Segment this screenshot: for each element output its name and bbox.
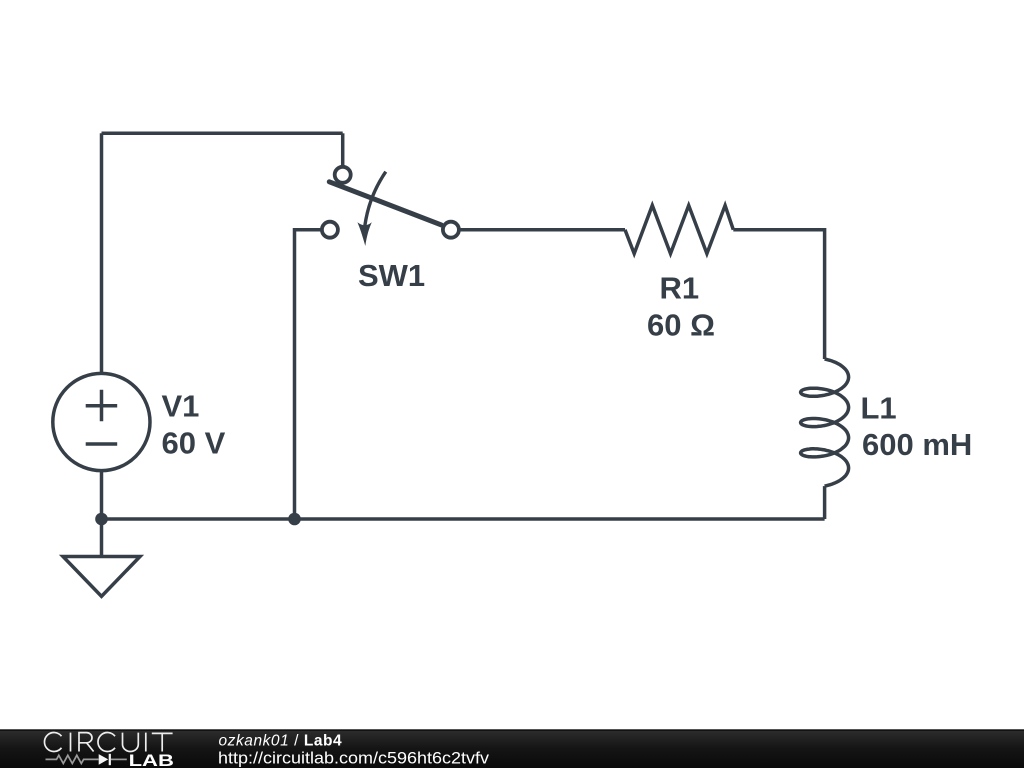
junction node at switch branch — [288, 513, 301, 526]
logo resistor wire — [46, 755, 127, 763]
svg-text:600 mH: 600 mH — [862, 427, 972, 462]
svg-text:LAB: LAB — [129, 751, 174, 768]
junction node at V1 — [95, 513, 108, 526]
footer bar — [0, 729, 1024, 768]
switch SW1 throw 2 terminal — [322, 222, 338, 238]
switch SW1 common terminal — [443, 222, 459, 238]
inductor L1 — [801, 359, 849, 486]
svg-text:60 V: 60 V — [162, 426, 226, 461]
wire switch common to resistor — [460, 228, 625, 232]
wire switch throw2 to bottom junction — [295, 230, 322, 519]
wire resistor to inductor — [733, 230, 824, 359]
logo CIRCUIT — [44, 732, 172, 751]
ground — [63, 557, 140, 597]
svg-text:R1: R1 — [660, 271, 700, 306]
switch SW1 throw 1 terminal — [335, 167, 351, 183]
svg-text:V1: V1 — [162, 389, 200, 424]
resistor R1 — [625, 205, 733, 253]
svg-text:ozkank01 / Lab4: ozkank01 / Lab4 — [219, 733, 343, 750]
switch SW1 lever — [329, 182, 441, 225]
wire top horizontal — [102, 132, 343, 136]
wire left vertical — [100, 133, 104, 374]
svg-text:60 Ω: 60 Ω — [647, 308, 715, 343]
voltage source V1 — [53, 373, 150, 470]
switch SW1 arrow head — [357, 222, 371, 246]
wire bottom horizontal — [102, 517, 825, 521]
svg-text:SW1: SW1 — [358, 258, 425, 293]
switch SW1 arrow shaft — [365, 172, 386, 226]
svg-text:L1: L1 — [861, 390, 897, 425]
svg-text:http://circuitlab.com/c596ht6c: http://circuitlab.com/c596ht6c2tvfv — [218, 749, 490, 767]
wire V1 bottom lead — [100, 470, 104, 519]
wire inductor bottom lead — [823, 486, 827, 519]
V1 minus sign — [86, 442, 118, 446]
wire ground lead — [100, 519, 104, 556]
V1 plus sign — [86, 390, 118, 422]
logo diode — [99, 754, 109, 765]
wire switch top lead — [341, 133, 345, 167]
